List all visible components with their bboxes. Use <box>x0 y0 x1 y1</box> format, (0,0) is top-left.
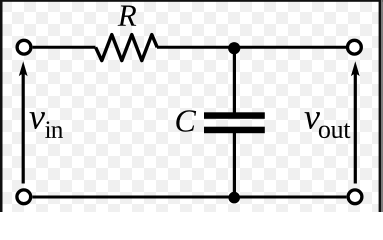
node B (junction dot bottom) <box>228 192 240 204</box>
label C <box>176 110 196 131</box>
capacitor C bottom plate <box>204 127 265 134</box>
arrow v_out line <box>354 74 357 184</box>
label R <box>118 6 137 26</box>
frame line right edge <box>379 0 382 212</box>
wire node A to terminal top-right <box>228 46 346 49</box>
capacitor C top plate <box>204 112 265 119</box>
wire node A down to capacitor <box>233 48 236 113</box>
terminal top-right (open circle) <box>348 40 362 54</box>
wire capacitor down to node B <box>233 133 236 198</box>
arrow v_in head <box>19 61 28 76</box>
terminal bottom-left (open circle) <box>17 190 31 204</box>
right screen-edge sliver <box>381 0 383 212</box>
label v_out <box>304 112 319 129</box>
node A (junction dot top) <box>228 42 240 54</box>
frame line left edge <box>0 0 3 212</box>
resistor R <box>96 35 158 61</box>
wire bottom (node B rail) <box>32 196 346 199</box>
arrow v_in line <box>22 74 25 184</box>
wire top-left to resistor <box>33 46 96 49</box>
arrow v_out head <box>351 61 360 76</box>
label v_in <box>29 112 44 129</box>
terminal top-left (open circle) <box>17 40 31 54</box>
terminal bottom-right (open circle) <box>348 190 362 204</box>
wire resistor to node A <box>157 46 228 49</box>
frame line top edge <box>0 0 383 2</box>
